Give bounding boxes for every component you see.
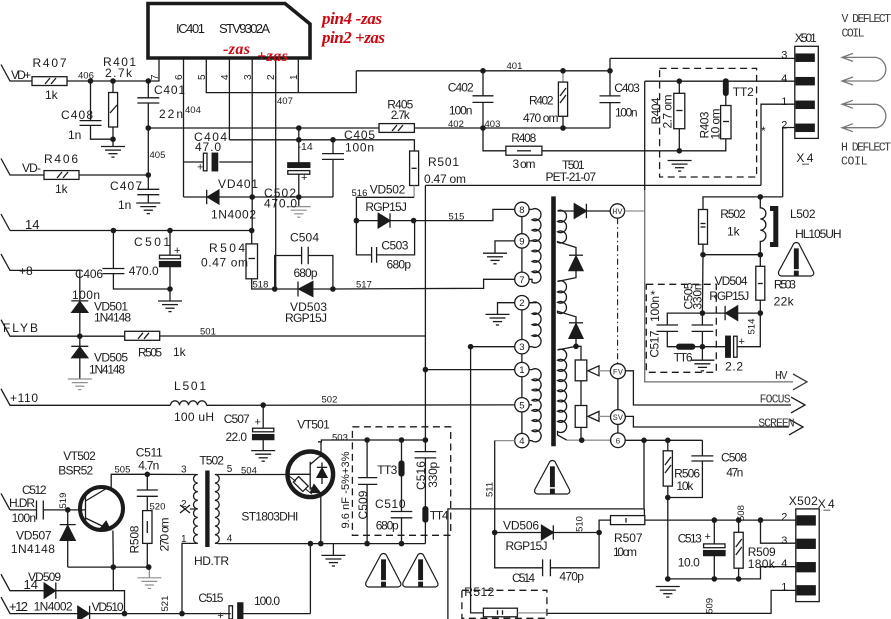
wire X502 pin1 net 509: [547, 590, 796, 613]
svg-text:HV: HV: [612, 207, 623, 217]
svg-text:680p: 680p: [294, 266, 318, 280]
resistor R402: [558, 71, 567, 128]
capacitor C408: [80, 81, 114, 139]
svg-text:470.0: 470.0: [264, 197, 297, 211]
capacitor C403: [600, 58, 621, 128]
node 6 circle: [611, 433, 626, 448]
svg-text:1k: 1k: [45, 88, 59, 102]
ferrite bead TT2: [724, 80, 729, 95]
node T501 pin 7: [515, 272, 529, 286]
resistor R401: [109, 81, 118, 146]
svg-text:4: 4: [781, 73, 787, 85]
transistor VT502: [68, 474, 148, 567]
wire net 408 extension: [252, 196, 333, 198]
wire HV output: [644, 81, 646, 190]
svg-text:503: 503: [332, 433, 348, 444]
svg-text:R508: R508: [128, 525, 142, 553]
H deflection coil symbol: [842, 100, 886, 131]
winding T501 2-3: [522, 302, 541, 347]
wire net 401 top bus: [356, 70, 610, 72]
svg-text:1N4002: 1N4002: [34, 600, 73, 614]
svg-text:X502: X502: [789, 494, 818, 508]
dashed box R512: [462, 590, 547, 618]
wire net 406: [67, 80, 148, 82]
capacitor C502 electrolytic: [288, 140, 310, 207]
svg-text:+: +: [705, 531, 711, 543]
ground under R401: [101, 147, 125, 158]
capacitor C507 electrolytic: [253, 405, 274, 450]
svg-text:401: 401: [507, 61, 523, 72]
svg-text:R512: R512: [464, 585, 494, 599]
wire bottom bus X502 area: [668, 567, 761, 579]
node T501 pin 5: [515, 377, 532, 434]
svg-text:1: 1: [519, 365, 524, 376]
svg-text:22n: 22n: [159, 107, 183, 121]
wire net 501: [160, 335, 426, 337]
svg-text:14: 14: [24, 577, 38, 592]
svg-text:1: 1: [181, 534, 187, 545]
svg-text:RGP15J: RGP15J: [709, 289, 749, 303]
wiper arrow focus: [588, 366, 610, 376]
svg-text:1k: 1k: [55, 182, 69, 196]
transistor VT501: [287, 442, 334, 544]
svg-text:2.2: 2.2: [725, 360, 743, 374]
svg-text:TT4: TT4: [430, 509, 449, 523]
svg-text:100n: 100n: [615, 106, 638, 120]
capacitor C516: [415, 440, 437, 507]
svg-text:2.7k: 2.7k: [105, 66, 133, 80]
resistor R407: [32, 77, 67, 86]
ground under C407: [136, 203, 160, 214]
inductor L502: [760, 197, 766, 255]
svg-text:SV: SV: [613, 413, 624, 423]
resistor R502: [699, 210, 708, 255]
arrow HV output: [793, 374, 807, 390]
wire pin5 IC401 to pin1 net: [206, 58, 356, 93]
svg-text:10.0: 10.0: [678, 556, 700, 570]
wire bus jog to -14: [298, 128, 300, 140]
svg-text:14: 14: [25, 217, 39, 232]
svg-text:22.0: 22.0: [226, 430, 248, 444]
capacitor C514: [495, 533, 599, 577]
svg-text:100n: 100n: [345, 141, 374, 155]
ground at VT501 emitter: [321, 555, 345, 566]
svg-text:FOCUS: FOCUS: [760, 394, 791, 407]
diode T501 secondary D1: [558, 204, 611, 218]
ferrite bead TT6: [677, 344, 695, 349]
svg-text:+12: +12: [9, 599, 28, 614]
svg-text:IC401: IC401: [176, 21, 205, 36]
svg-text:C514: C514: [512, 571, 535, 585]
dashed box harmonic caps: [352, 427, 450, 536]
svg-text:4.7n: 4.7n: [138, 459, 159, 473]
resistor R501: [410, 151, 419, 186]
diode VD504: [702, 306, 760, 320]
svg-text:515: 515: [449, 212, 465, 223]
capacitor C513 electrolytic: [704, 520, 725, 579]
wire VD509 link: [112, 567, 114, 591]
svg-text:RGP15J: RGP15J: [506, 539, 548, 553]
capacitor C512: [10, 501, 68, 520]
node T501 pin 8: [515, 202, 532, 216]
diode VD501: [71, 270, 88, 336]
resistor R505: [125, 331, 160, 340]
svg-text:*: *: [761, 124, 766, 138]
svg-text:2.7 om: 2.7 om: [661, 95, 675, 129]
wire net 14 rail: [10, 230, 252, 232]
svg-text:3: 3: [781, 535, 787, 547]
wire net -14: [229, 140, 414, 151]
svg-text:1N4148: 1N4148: [89, 363, 125, 377]
wire net 517: [333, 279, 515, 289]
svg-text:HV: HV: [775, 370, 788, 383]
node T501 pin 2: [515, 296, 537, 310]
wire net 510: [554, 532, 600, 534]
svg-text:C508: C508: [721, 451, 747, 465]
capacitor C401: [137, 81, 159, 128]
svg-text:-14: -14: [298, 141, 313, 153]
svg-text:C402: C402: [448, 81, 474, 95]
wire X502 pin4: [761, 566, 796, 568]
capacitor C517: [657, 313, 703, 347]
svg-text:6: 6: [615, 436, 620, 446]
capacitor C503: [356, 221, 414, 263]
wire net 503: [318, 440, 425, 442]
svg-text:1N4002: 1N4002: [211, 208, 256, 222]
svg-text:COIL: COIL: [842, 28, 865, 41]
svg-text:4: 4: [227, 534, 233, 545]
wire C401 bottom to VD- net: [147, 128, 149, 175]
svg-text:406: 406: [78, 71, 94, 82]
svg-text:VD510: VD510: [92, 600, 124, 614]
ground under VD505: [68, 379, 92, 390]
svg-text:R402: R402: [529, 94, 554, 108]
inductor L501: [171, 401, 207, 406]
svg-text:511: 511: [485, 482, 496, 497]
svg-text:C403: C403: [614, 81, 640, 95]
winding T501 secondary middle: [558, 281, 577, 323]
resistor R503: [756, 266, 765, 313]
svg-text:TT3: TT3: [377, 463, 397, 477]
wire X502 pin3: [761, 520, 796, 543]
wire ground stub: [332, 544, 334, 556]
svg-text:1k: 1k: [173, 345, 187, 359]
svg-text:VD502: VD502: [370, 183, 406, 197]
svg-text:1: 1: [781, 582, 787, 594]
svg-text:0.47 om: 0.47 om: [424, 172, 466, 186]
svg-text:330n: 330n: [691, 284, 705, 310]
ground under C507: [251, 451, 275, 462]
svg-text:C406: C406: [75, 267, 103, 281]
svg-text:100n: 100n: [12, 511, 36, 525]
capacitor C504: [275, 247, 333, 289]
wire secondary bottom to pin6: [567, 439, 610, 441]
svg-text:VD401: VD401: [218, 177, 258, 191]
svg-text:508: 508: [736, 505, 747, 521]
svg-text:C515: C515: [198, 591, 223, 605]
wire VD509 riser: [309, 544, 311, 614]
wire X501 pin3: [610, 57, 795, 59]
ground in damping box: [668, 161, 692, 172]
svg-text:RGP15J: RGP15J: [365, 200, 407, 214]
svg-text:C511: C511: [136, 446, 163, 460]
svg-text:+: +: [217, 610, 223, 619]
svg-text:R502: R502: [720, 207, 746, 221]
node 14 input connector: [1, 214, 10, 231]
svg-text:8: 8: [519, 205, 524, 216]
svg-text:100.0: 100.0: [254, 594, 280, 608]
svg-text:4: 4: [519, 436, 524, 447]
svg-text:519: 519: [58, 493, 69, 509]
resistor R406: [44, 171, 79, 180]
dashed box damping network: [660, 68, 757, 177]
node +8 input connector: [1, 254, 80, 270]
warning triangle right: [403, 554, 438, 588]
svg-text:405: 405: [150, 150, 166, 161]
wire R507 drop: [448, 440, 644, 619]
wire T501 pin9 ground lead: [495, 241, 515, 253]
dash-dot link HV-FV: [617, 218, 619, 364]
svg-text:517: 517: [356, 280, 372, 291]
V deflection coil symbol: [842, 53, 886, 85]
svg-text:5: 5: [519, 400, 524, 411]
node SV circle: [611, 410, 626, 433]
svg-text:4: 4: [220, 74, 231, 80]
svg-text:330p: 330p: [426, 461, 440, 487]
ground symbol R508: [137, 578, 161, 589]
svg-text:3 om: 3 om: [513, 157, 536, 171]
ground at T501 pin2: [486, 314, 510, 325]
svg-text:0.47 om: 0.47 om: [201, 256, 248, 270]
ground under C501: [158, 301, 182, 312]
capacitor C404 electrolytic: [184, 153, 253, 171]
op-amp U401 IC401 body: [148, 4, 310, 59]
connector X501 body: [795, 46, 819, 138]
svg-text:3: 3: [181, 465, 187, 476]
svg-text:X_4: X_4: [796, 151, 813, 165]
diode VD505: [71, 336, 88, 378]
svg-text:pin2 +zas: pin2 +zas: [320, 28, 385, 47]
potentiometer focus: [575, 346, 587, 381]
ground at T501 pin9: [483, 253, 507, 264]
svg-text:1N4148: 1N4148: [94, 311, 131, 325]
diode VD507: [60, 510, 76, 567]
svg-text:C507: C507: [224, 412, 250, 426]
wire R507 right vertical link: [643, 509, 645, 516]
svg-text:FLYB: FLYB: [3, 321, 38, 335]
svg-text:C503: C503: [381, 239, 408, 253]
resistor R504: [246, 231, 275, 290]
svg-text:C513: C513: [678, 532, 702, 546]
diode VD503: [275, 282, 333, 297]
core bracket L502: [770, 209, 776, 245]
svg-text:L502: L502: [790, 207, 816, 221]
svg-text:VT502: VT502: [63, 449, 96, 463]
capacitor C406: [102, 231, 170, 290]
wire emitter bottom bus: [218, 543, 426, 545]
svg-text:407: 407: [277, 96, 293, 107]
svg-text:ST1803DHI: ST1803DHI: [241, 510, 298, 524]
node FLYB input connector: [1, 320, 125, 337]
svg-text:270 om: 270 om: [158, 518, 172, 552]
wire pin1 IC401: [297, 58, 299, 93]
transformer T501 core: [551, 196, 556, 446]
svg-text:514: 514: [747, 319, 758, 335]
wire T501 pin1 to X501 pin1: [425, 184, 761, 186]
winding T501 secondary bottom: [558, 346, 577, 440]
svg-text:10 om: 10 om: [709, 109, 723, 140]
svg-text:5: 5: [197, 74, 208, 80]
svg-text:*: *: [651, 288, 656, 302]
svg-text:2: 2: [181, 499, 187, 510]
ground under C502: [287, 207, 311, 218]
resistor R506: [663, 440, 672, 497]
diode VD510: [78, 606, 231, 619]
svg-text:470.0: 470.0: [129, 264, 159, 278]
wire T502 pin1 drop: [182, 543, 195, 613]
svg-text:1n: 1n: [68, 128, 81, 142]
wire X501 pin2: [783, 128, 795, 197]
svg-text:HD.TR: HD.TR: [194, 554, 229, 568]
svg-text:R408: R408: [511, 131, 536, 145]
node FV circle: [610, 364, 625, 410]
svg-text:VD-: VD-: [22, 161, 41, 175]
wire R502 L502 bottom: [703, 255, 760, 267]
svg-text:2: 2: [781, 120, 787, 132]
svg-text:+: +: [174, 245, 180, 257]
svg-text:R505: R505: [138, 346, 162, 360]
svg-text:10k: 10k: [676, 479, 694, 493]
wire net 515: [414, 209, 515, 220]
svg-text:2.7k: 2.7k: [391, 108, 411, 122]
potentiometer screen: [575, 381, 587, 440]
wire T502 pin5 to VT501 base: [218, 474, 287, 476]
capacitor C501 electrolytic: [160, 231, 181, 301]
svg-text:3: 3: [519, 342, 524, 353]
node +110 input connector: [1, 389, 171, 406]
wire FOCUS output: [625, 371, 791, 405]
svg-text:+: +: [255, 417, 261, 429]
warning triangle T501: [535, 461, 570, 495]
svg-text:9: 9: [519, 236, 524, 247]
node T501 pin 4: [495, 433, 529, 447]
wire net 405: [79, 174, 148, 176]
capacitor C515 electrolytic: [229, 603, 310, 619]
svg-text:HL105UH: HL105UH: [795, 227, 842, 241]
node H.DR input connector: [1, 493, 10, 510]
svg-text:3: 3: [781, 50, 787, 62]
resistor R404: [674, 81, 685, 151]
ground under C506 node: [690, 360, 714, 371]
wire R502 L502 top: [703, 197, 783, 210]
wire TT6 to node: [695, 347, 703, 360]
svg-text:2: 2: [266, 74, 277, 80]
warning triangle HL105UH: [778, 243, 813, 277]
wire pin7 IC401: [148, 58, 159, 81]
wire T501 pin2 ground lead: [498, 303, 515, 314]
wire net 502: [207, 404, 515, 406]
node VD- input connector: [1, 159, 44, 176]
svg-text:V DEFLECT: V DEFLECT: [842, 13, 891, 26]
svg-text:VD507: VD507: [16, 529, 52, 543]
svg-text:180k: 180k: [748, 557, 776, 571]
svg-text:1k: 1k: [727, 225, 741, 239]
svg-text:pin4 -zas: pin4 -zas: [320, 9, 382, 28]
svg-text:404: 404: [185, 105, 201, 116]
wire X501 pin1: [761, 104, 795, 185]
diode T501 secondary D3 vertical: [569, 323, 583, 347]
svg-text:6: 6: [174, 74, 185, 80]
svg-text:100 uH: 100 uH: [174, 410, 214, 424]
capacitor C506 electrolytic: [702, 313, 760, 357]
svg-text:100n: 100n: [449, 104, 473, 118]
svg-text:470p: 470p: [559, 570, 584, 584]
node VD+ input connector: [1, 65, 32, 82]
capacitor C505: [692, 313, 714, 347]
svg-text:680p: 680p: [387, 258, 412, 272]
resistor R509: [734, 520, 743, 579]
ground under bottom bus: [656, 587, 680, 598]
wire R506 bottom drop: [667, 498, 669, 579]
diode VD506: [495, 525, 554, 539]
svg-text:518: 518: [253, 280, 269, 291]
svg-text:COIL: COIL: [841, 156, 868, 169]
svg-text:C512: C512: [22, 483, 47, 497]
wire pin4 IC401: [228, 58, 230, 140]
capacitor C405: [322, 140, 344, 197]
svg-text:680p: 680p: [376, 519, 399, 533]
svg-text:501: 501: [200, 327, 216, 338]
wire net 516: [356, 186, 414, 221]
svg-text:C408: C408: [61, 108, 93, 122]
svg-text:510: 510: [575, 516, 586, 532]
svg-text:C510: C510: [375, 497, 406, 511]
svg-text:C407: C407: [110, 179, 142, 193]
capacitor C508: [668, 440, 714, 497]
connector X502 body: [796, 509, 819, 602]
svg-text:VD504: VD504: [715, 274, 748, 288]
svg-text:C509: C509: [356, 490, 370, 519]
svg-text:505: 505: [115, 465, 131, 476]
svg-text:RGP15J: RGP15J: [285, 311, 327, 325]
svg-text:T502: T502: [199, 454, 224, 468]
svg-text:403: 403: [485, 119, 501, 130]
svg-text:SCREEN: SCREEN: [758, 418, 795, 431]
node T501 pin 3: [471, 340, 530, 354]
svg-text:R501: R501: [428, 155, 459, 169]
capacitor C402: [473, 71, 494, 128]
wire bus net 402: [148, 127, 379, 129]
svg-text:2: 2: [519, 298, 524, 309]
svg-text:402: 402: [448, 119, 464, 130]
svg-text:7: 7: [150, 74, 161, 80]
svg-text:+: +: [301, 172, 307, 184]
svg-text:9.6 nF -5%+3%: 9.6 nF -5%+3%: [340, 451, 352, 528]
svg-text:1n: 1n: [118, 198, 131, 212]
svg-text:TT2: TT2: [733, 85, 754, 99]
winding T501 8-7: [529, 209, 541, 283]
ferrite bead TT4: [423, 507, 428, 544]
warning triangle left: [366, 554, 401, 588]
svg-text:+8: +8: [19, 264, 33, 278]
svg-text:FV: FV: [613, 367, 624, 377]
transformer T502 core: [205, 471, 209, 548]
svg-text:TT6: TT6: [674, 351, 693, 365]
svg-text:X_4: X_4: [818, 497, 835, 511]
svg-text:516: 516: [352, 188, 368, 199]
svg-text:R503: R503: [774, 278, 796, 292]
svg-text:C401: C401: [154, 83, 185, 97]
